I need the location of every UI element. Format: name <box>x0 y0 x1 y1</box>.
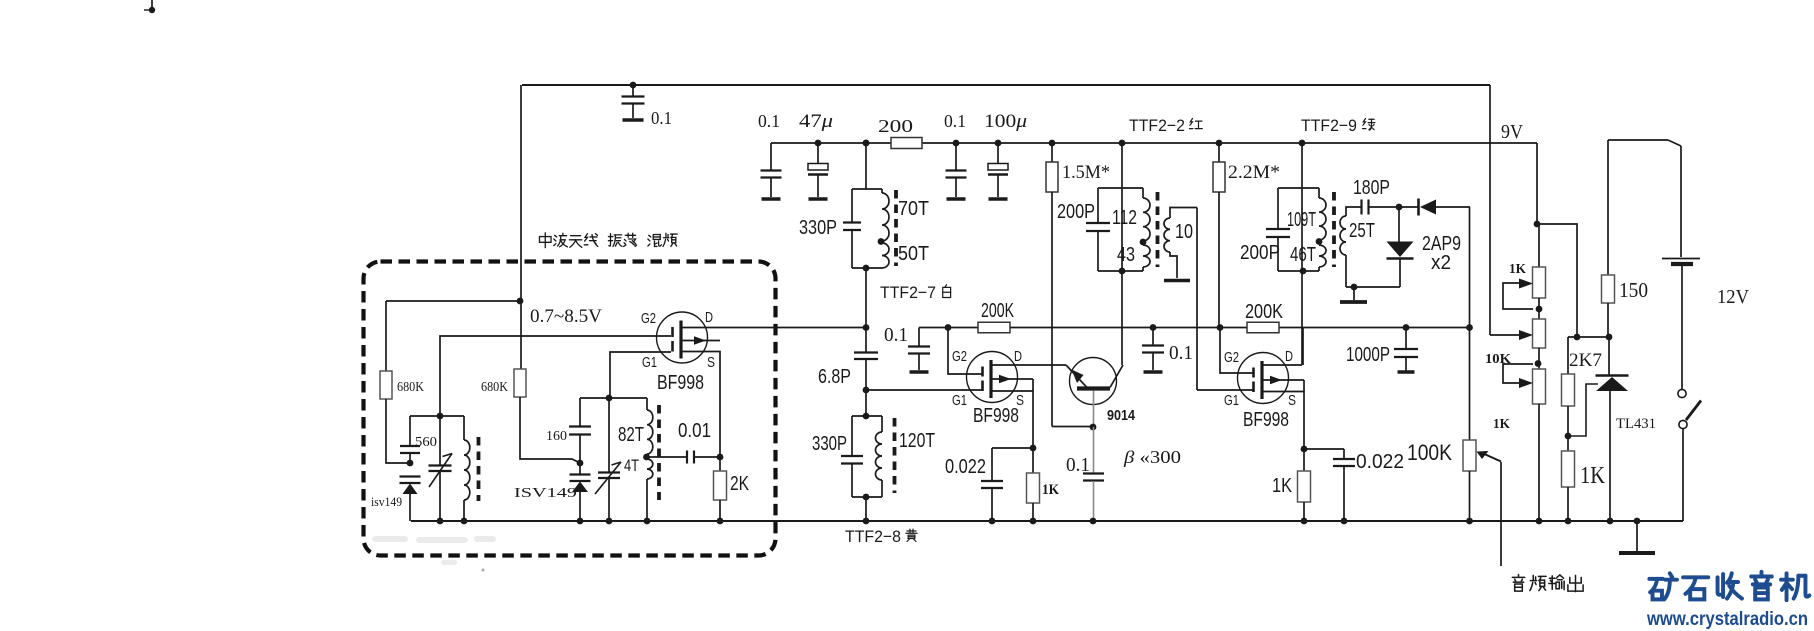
resistor 2K (source) <box>714 457 727 521</box>
value label 43 <box>1117 244 1135 266</box>
wire D of 3rd stage <box>1262 364 1302 366</box>
transformer TTF2-9 primary loop + 200P <box>1266 188 1319 271</box>
svg-text:ISV149: ISV149 <box>514 486 577 501</box>
pin label S <box>1016 392 1024 409</box>
junction <box>1574 334 1613 341</box>
inductor 112 winding <box>1143 188 1150 241</box>
svg-text:BF998: BF998 <box>657 372 704 394</box>
value label 10 <box>1175 221 1193 243</box>
svg-text:330P: 330P <box>799 217 837 239</box>
junction <box>1090 518 1097 525</box>
value label 1K <box>1042 482 1059 498</box>
part label BF998 <box>657 372 704 394</box>
junction <box>1565 518 1572 525</box>
resistor 1.5M* (9014 bias) <box>1046 143 1058 427</box>
junction <box>1403 324 1410 331</box>
capacitor 0.1 (top rail bypass) <box>622 85 645 120</box>
switch (power) <box>1678 389 1701 521</box>
junction <box>945 324 952 331</box>
svg-text:1K: 1K <box>1042 482 1059 498</box>
value label 25T <box>1349 220 1375 242</box>
label ISV149 <box>514 486 577 501</box>
inductor 50T winding <box>882 243 889 268</box>
wire D of 2nd stage <box>991 364 1066 366</box>
svg-text:BF998: BF998 <box>973 405 1019 427</box>
wire G2 of 3rd stage <box>1220 328 1253 374</box>
junction <box>863 494 870 501</box>
potentiometer 10K (c) <box>1533 369 1546 521</box>
junction ref node <box>1565 433 1572 440</box>
svg-text:G2: G2 <box>952 348 967 365</box>
junction tap <box>1316 238 1323 245</box>
svg-text:isv149: isv149 <box>371 494 402 509</box>
svg-text:12V: 12V <box>1717 286 1750 308</box>
resistor 1K (source a) <box>1027 448 1040 521</box>
junction <box>1299 140 1306 147</box>
value label 120T <box>899 430 935 452</box>
wire 9V corner <box>1537 143 1577 337</box>
core (osc coil, dashed) <box>657 405 661 500</box>
svg-text:D: D <box>1014 348 1022 365</box>
part label BF998 <box>973 405 1019 427</box>
value label 200K <box>981 300 1014 322</box>
value label 12V <box>1717 286 1750 308</box>
tank circuit 330P-120T loop <box>841 416 882 497</box>
svg-text:0.7~8.5V: 0.7~8.5V <box>530 306 602 327</box>
wire G1 of 3rd stage <box>1197 389 1253 391</box>
inductor antenna coil <box>464 416 470 521</box>
capacitor 180P (detector coupling) <box>1362 200 1400 215</box>
junction on top rail <box>630 82 637 89</box>
value label 200K <box>1245 301 1284 323</box>
resistor 680K (RF AGC a) <box>380 301 410 463</box>
wire G1 of 2nd stage <box>866 389 982 391</box>
value label 200P <box>1057 201 1095 223</box>
junction <box>437 413 444 420</box>
resistor 150 <box>1602 140 1615 337</box>
svg-text:1000P: 1000P <box>1346 344 1390 366</box>
svg-text:200K: 200K <box>981 300 1014 322</box>
wire <box>865 268 867 352</box>
junction <box>1634 518 1641 525</box>
junction winding tap <box>878 238 885 245</box>
op-amp U1 mixer BF998 symbol <box>657 312 708 363</box>
value label 330P <box>799 217 837 239</box>
core (dashed) <box>893 418 897 493</box>
svg-text:1K: 1K <box>1580 463 1606 489</box>
wire osc tank top <box>580 397 647 399</box>
value label 680K <box>397 380 424 395</box>
junction <box>995 140 1002 147</box>
svg-text:25T: 25T <box>1349 220 1375 242</box>
svg-text:9V: 9V <box>1501 121 1523 143</box>
value label 160 <box>546 429 567 444</box>
part label TL431 <box>1616 416 1656 432</box>
resistor 1K (source b) <box>1298 449 1311 521</box>
svg-text:50T: 50T <box>898 243 929 265</box>
potentiometer 1K (a) <box>1533 267 1546 319</box>
svg-text:200P: 200P <box>1240 242 1280 264</box>
junction <box>1535 360 1542 367</box>
label TTF2-9 green <box>1301 116 1375 135</box>
value label 560 <box>415 435 437 450</box>
junction D-line joins <box>863 324 870 331</box>
svg-text:www.crystalradio.cn: www.crystalradio.cn <box>1646 608 1808 630</box>
svg-text:9014: 9014 <box>1107 407 1136 424</box>
value label 112 <box>1112 207 1137 229</box>
value label 2K <box>730 473 750 495</box>
label 10K <box>1485 352 1511 367</box>
svg-text:4T: 4T <box>624 456 639 475</box>
core (antenna rod, dashed) <box>477 437 481 501</box>
node stray mark top-left <box>144 0 155 13</box>
wire G1 line from osc tank <box>610 352 671 398</box>
junction <box>1466 518 1473 525</box>
svg-text:β «300: β «300 <box>1123 447 1181 467</box>
junction <box>1301 446 1308 453</box>
ground (detector) <box>1340 287 1367 302</box>
battery 12V <box>1662 146 1700 390</box>
resistor 680K (osc b) <box>514 369 580 463</box>
capacitor 0.022 (source bypass b) <box>1304 449 1355 521</box>
wire S bend of mixer <box>681 352 720 458</box>
pin label G1 <box>1224 392 1239 409</box>
wire top rail y85 <box>522 84 1490 86</box>
svg-text:120T: 120T <box>899 430 935 452</box>
svg-text:112: 112 <box>1112 207 1137 229</box>
junction <box>953 140 960 147</box>
capacitor 6.8P (coupling to 2nd stage) <box>854 353 878 417</box>
junction <box>815 140 822 147</box>
substrate arrow of mixer <box>681 336 720 345</box>
junction <box>717 454 724 461</box>
wire battery top link <box>1608 140 1681 146</box>
resistor 200 (horizontal on rail) <box>891 138 922 149</box>
value label 70T <box>898 198 929 220</box>
svg-text:330P: 330P <box>812 433 847 455</box>
junction <box>1351 284 1358 291</box>
junction <box>989 518 1037 525</box>
value label 2K7 <box>1569 350 1602 371</box>
value label 0.022 <box>945 456 986 478</box>
svg-text:200: 200 <box>878 116 913 136</box>
value label 1K <box>1580 463 1606 489</box>
value label 82T <box>618 424 644 446</box>
svg-text:S: S <box>707 354 715 371</box>
junction <box>407 460 414 467</box>
wire TTF2-9 feed x1302 down to D of 3rd BF998 <box>1301 143 1303 365</box>
svg-text:0.1: 0.1 <box>944 111 966 131</box>
junction <box>717 518 724 525</box>
inductor 43 winding <box>1143 245 1150 271</box>
capacitor 100u electrolytic <box>988 143 1008 199</box>
inductor 120T <box>876 416 883 497</box>
shunt regulator TL431 <box>1596 337 1629 521</box>
transistor U3 BF998 <box>1238 353 1289 404</box>
wire pots chain top <box>1537 224 1539 267</box>
wire TTF2-2 feed / 9014 collector line x1122 <box>1121 143 1123 365</box>
potentiometer 100K (volume) <box>1463 328 1476 522</box>
junction <box>1607 518 1614 525</box>
junction base node <box>1090 424 1097 431</box>
transformer TTF2-7 primary loop + capacitor 330P <box>843 189 882 268</box>
value label 0.1 <box>651 108 672 128</box>
junction <box>1534 221 1541 228</box>
ground (secondary) <box>1164 279 1190 283</box>
value label 0.1 <box>758 111 780 131</box>
svg-text:2K: 2K <box>730 473 750 495</box>
wire bottom rail y521 <box>411 520 1683 522</box>
label isv149 <box>371 494 402 509</box>
svg-text:0.022: 0.022 <box>945 456 986 478</box>
value label 6.8P <box>818 366 851 388</box>
wire detector output down to AGC row <box>1469 207 1471 328</box>
inductor 70T winding <box>882 189 889 241</box>
svg-text:0.1: 0.1 <box>884 324 908 346</box>
diode 2AP9 a (series, pointing left) <box>1399 199 1470 216</box>
value label 200 <box>878 116 913 136</box>
junction <box>577 518 651 525</box>
junction <box>863 265 870 272</box>
svg-text:560: 560 <box>415 435 437 450</box>
svg-text:47μ: 47μ <box>799 111 833 132</box>
value label 200P <box>1240 242 1280 264</box>
wire TL431 ref <box>1568 384 1598 436</box>
transformer TTF2-2 primary loop + 200P <box>1086 188 1143 271</box>
svg-text:D: D <box>1285 348 1293 365</box>
value label 47u <box>799 111 833 132</box>
capacitor 1000P <box>1394 328 1418 373</box>
svg-text:200P: 200P <box>1057 201 1095 223</box>
part label 2AP9 x2 <box>1422 233 1461 274</box>
junction <box>863 140 870 147</box>
svg-text:0.1: 0.1 <box>1169 342 1193 364</box>
label audio output <box>1512 574 1583 591</box>
transistor Q1 9014 <box>1066 358 1123 405</box>
label 1K <box>1509 262 1526 277</box>
svg-text:100K: 100K <box>1407 440 1452 465</box>
resistor 2.2M* (3rd stage G2 bias) <box>1213 143 1225 328</box>
core (IF can, dashed) <box>894 190 898 266</box>
decor <box>372 536 496 572</box>
value label 180P <box>1353 177 1390 199</box>
junction <box>437 518 468 525</box>
svg-text:100μ: 100μ <box>984 111 1027 132</box>
capacitor 0.1 (rail filter a) <box>761 143 782 199</box>
value label 1.5M* <box>1062 162 1110 183</box>
value label 100u <box>984 111 1027 132</box>
label zhongbo-tianxian-zhendang-hunpin <box>539 233 677 248</box>
svg-text:150: 150 <box>1619 278 1648 302</box>
junction <box>1150 324 1157 331</box>
label TTF2-2 red <box>1129 116 1202 135</box>
svg-text:200K: 200K <box>1245 301 1284 323</box>
value label 109T <box>1287 209 1316 231</box>
wire S bend <box>991 391 1033 448</box>
capacitor 0.1 (base bypass) <box>1083 427 1104 521</box>
junction detector node <box>1396 204 1403 211</box>
wire regulator top link <box>1568 336 1609 338</box>
wire feed <box>865 143 867 189</box>
svg-text:70T: 70T <box>898 198 929 220</box>
svg-text:2K7: 2K7 <box>1569 350 1602 371</box>
junction <box>1217 324 1224 331</box>
value label 0.1 <box>1169 342 1193 364</box>
svg-text:0.1: 0.1 <box>651 108 672 128</box>
svg-text:BF998: BF998 <box>1243 409 1289 431</box>
pin label G1 <box>952 392 967 409</box>
capacitor 0.1 (row bypass) <box>1142 328 1164 373</box>
svg-text:TTF2−7: TTF2−7 <box>880 283 936 302</box>
wiper arrow b <box>1490 330 1533 340</box>
junction osc tap <box>643 454 650 461</box>
junction <box>606 395 613 402</box>
wire G2 of 2nd stage <box>948 328 982 375</box>
value label 50T <box>898 243 929 265</box>
pin label S <box>1288 392 1296 409</box>
variable capacitor (antenna tuning gang) <box>429 416 453 521</box>
varactor ISV149 (osc tuning) <box>570 475 591 522</box>
wire base stem (grey) <box>1093 391 1095 428</box>
pin label D <box>705 309 713 326</box>
value label 330P <box>812 433 847 455</box>
label 4T <box>624 456 639 475</box>
inductor 109T winding <box>1319 188 1326 240</box>
wiper arrow a <box>1503 279 1533 310</box>
junction <box>577 460 584 467</box>
emitter arrow of 9014 <box>1072 370 1084 384</box>
pin label G1 <box>642 354 657 371</box>
svg-text:0.1: 0.1 <box>1066 454 1090 476</box>
junction <box>863 140 870 147</box>
resistor 200K (2nd stage G2) <box>978 322 1010 333</box>
junction primary bottom <box>1300 268 1307 275</box>
wire tank top bus <box>410 415 464 417</box>
resistor 2K7 <box>1562 337 1575 436</box>
wire audio output drop <box>1500 462 1502 566</box>
wire D of mixer to IF transformer <box>681 327 866 329</box>
svg-text:680K: 680K <box>481 380 508 395</box>
part label BF998 <box>1243 409 1289 431</box>
svg-text:TTF2−8: TTF2−8 <box>845 527 901 546</box>
wire main rail y143 <box>771 142 1537 144</box>
svg-text:1K: 1K <box>1272 475 1293 497</box>
part label 9014 <box>1107 407 1136 424</box>
wire secondary to G1 of 3rd stage <box>1196 208 1198 391</box>
value label 0.022 <box>1356 451 1404 473</box>
junction tap <box>1140 239 1147 246</box>
value label 46T <box>1290 244 1316 266</box>
svg-text:x2: x2 <box>1431 252 1451 274</box>
junction G1 branch <box>863 387 870 394</box>
dashed box (MW antenna osc mixer block) <box>364 262 776 556</box>
watermark crystalradio <box>1646 572 1809 630</box>
svg-text:82T: 82T <box>618 424 644 446</box>
varactor isv149 (antenna tuning) <box>400 477 421 522</box>
svg-text:10: 10 <box>1175 221 1193 243</box>
transistor U2 BF998 IF amp <box>967 352 1018 403</box>
junction <box>1536 518 1543 525</box>
inductor 46T winding <box>1319 245 1326 271</box>
wire S bend <box>1262 392 1304 450</box>
junction <box>1049 140 1056 147</box>
substrate arrow <box>1262 376 1304 392</box>
wire G2 line from antenna tank <box>440 336 671 416</box>
svg-text:G1: G1 <box>952 392 967 409</box>
capacitor 0.01 (feedback) <box>647 451 720 464</box>
potentiometer (b) <box>1533 319 1546 369</box>
resistor 200K (3rd stage G2) <box>1247 322 1279 333</box>
svg-text:G1: G1 <box>642 354 657 371</box>
value label 0.1 <box>884 324 908 346</box>
pin label D <box>1014 348 1022 365</box>
svg-text:G1: G1 <box>1224 392 1239 409</box>
capacitor 0.1 (2nd stage G2 bypass) <box>908 328 930 373</box>
value label 680K <box>481 380 508 395</box>
label TTF2-8 yellow <box>845 527 917 546</box>
label 1K <box>1493 417 1510 432</box>
value label 0.1 <box>944 111 966 131</box>
wire right vertical x1490 (top rail down to volume pot wiper) <box>1489 85 1491 335</box>
svg-text:6.8P: 6.8P <box>818 366 851 388</box>
junction <box>1216 140 1223 147</box>
label beta <box>1123 447 1181 467</box>
capacitor 160 (osc varactor coupling) <box>569 398 591 474</box>
junction <box>1119 140 1126 147</box>
svg-text:43: 43 <box>1117 244 1135 266</box>
capacitor 0.1 (rail filter b) <box>946 143 967 199</box>
svg-text:TTF2−9: TTF2−9 <box>1301 116 1357 135</box>
wire row corner down to D <box>1302 328 1304 366</box>
ground (main) <box>1619 521 1655 553</box>
wire base bias feed <box>1052 426 1093 428</box>
label 0.7~8.5V <box>530 306 602 327</box>
junction <box>1466 324 1473 331</box>
junction primary bottom <box>1119 268 1126 275</box>
svg-text:1.5M*: 1.5M* <box>1062 162 1110 183</box>
pin label G2 <box>952 348 967 365</box>
value label 150 <box>1619 278 1648 302</box>
inductor 82T osc coil upper <box>647 398 653 457</box>
svg-text:S: S <box>1288 392 1296 409</box>
junction <box>863 413 870 420</box>
value label 100K <box>1407 440 1452 465</box>
svg-text:46T: 46T <box>1290 244 1316 266</box>
svg-text:1K: 1K <box>1509 262 1526 277</box>
wire 200K row <box>919 327 1470 329</box>
value label 1K <box>1272 475 1293 497</box>
wire 0.7-8.5V feed <box>386 300 521 302</box>
core (dashed) <box>1332 192 1336 267</box>
svg-text:180P: 180P <box>1353 177 1390 199</box>
svg-text:G2: G2 <box>641 310 656 327</box>
inductor 25T secondary <box>1340 207 1361 287</box>
svg-text:0.1: 0.1 <box>758 111 780 131</box>
core (dashed) <box>1156 192 1160 267</box>
wire left vertical x521 (top rail to 0.7-8.5V node and 680K) <box>520 85 522 369</box>
junction <box>863 518 870 525</box>
inductor 10 secondary <box>1164 208 1197 279</box>
wiper arrow (audio tap) <box>1477 451 1502 462</box>
junction <box>1301 518 1348 525</box>
value label 0.01 <box>678 420 711 442</box>
inductor 4T osc coil lower <box>647 457 653 521</box>
svg-text:680K: 680K <box>397 380 424 395</box>
value label 1000P <box>1346 344 1390 366</box>
junction <box>1030 445 1037 452</box>
junction 0.7-8.5V node <box>517 298 524 305</box>
pin label S <box>707 354 715 371</box>
